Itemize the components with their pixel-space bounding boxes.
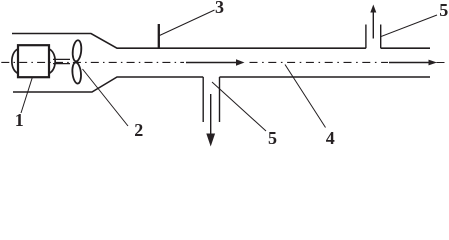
svg-text:2: 2: [134, 120, 143, 140]
svg-text:4: 4: [326, 128, 335, 148]
svg-text:3: 3: [215, 0, 224, 17]
svg-text:1: 1: [15, 110, 24, 130]
svg-text:5: 5: [268, 128, 277, 148]
svg-text:5: 5: [439, 0, 448, 20]
